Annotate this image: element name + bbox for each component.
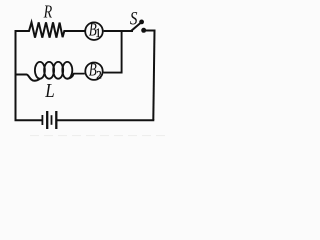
svg-text:R: R	[43, 3, 53, 22]
svg-text:L: L	[44, 80, 54, 103]
svg-text:S: S	[130, 8, 138, 29]
svg-text:1: 1	[95, 25, 101, 40]
svg-text:2: 2	[96, 69, 101, 81]
